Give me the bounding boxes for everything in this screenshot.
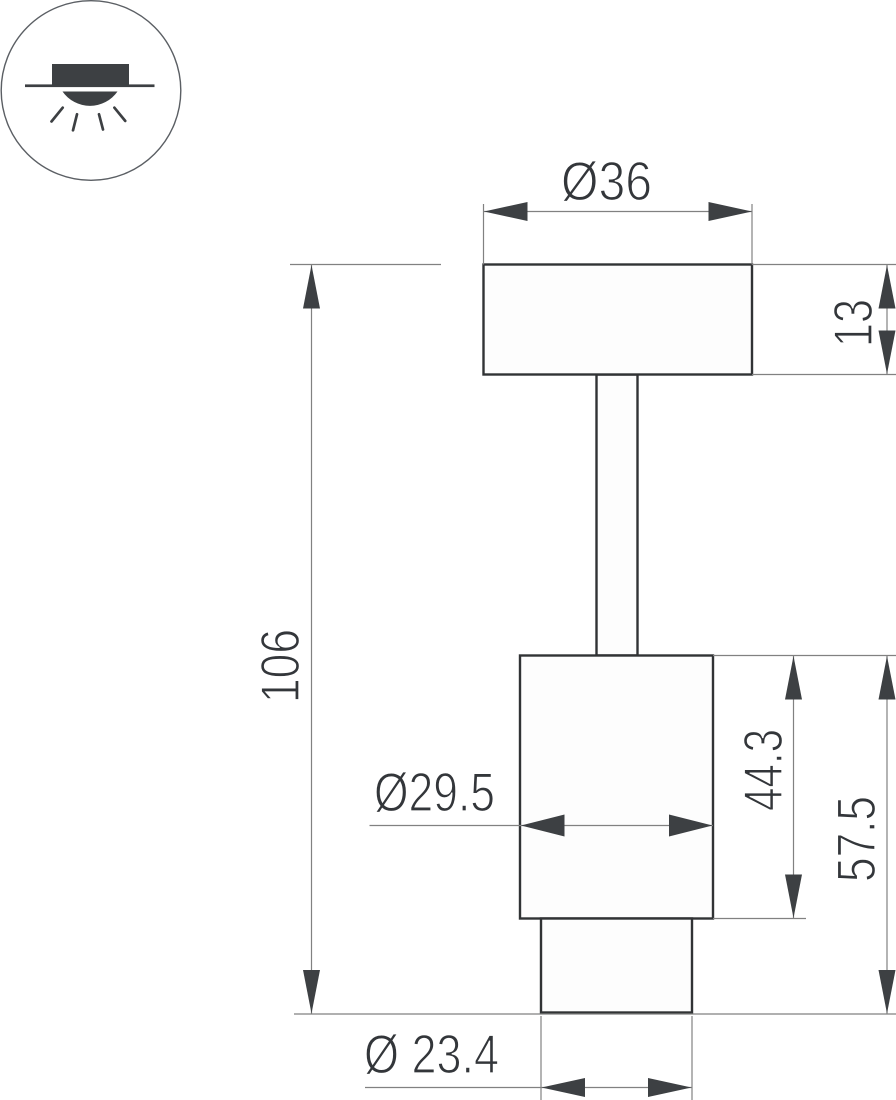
svg-text:Ø 23.4: Ø 23.4 xyxy=(364,1023,499,1085)
svg-text:13: 13 xyxy=(822,299,884,347)
svg-text:Ø36: Ø36 xyxy=(561,150,652,212)
svg-text:44.3: 44.3 xyxy=(732,729,794,811)
svg-text:57.5: 57.5 xyxy=(825,796,887,882)
svg-text:Ø29.5: Ø29.5 xyxy=(374,761,495,823)
svg-text:106: 106 xyxy=(249,629,311,703)
